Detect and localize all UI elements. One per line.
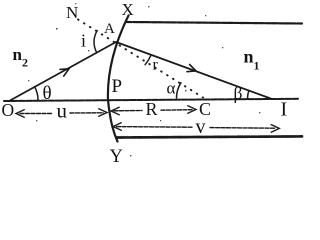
svg-text:A: A [104, 21, 115, 37]
svg-text:X: X [122, 0, 134, 19]
svg-text:R: R [146, 99, 158, 119]
svg-text:r: r [153, 57, 159, 74]
svg-text:α: α [167, 79, 176, 98]
svg-text:O: O [2, 100, 15, 120]
svg-text:Y: Y [110, 147, 123, 165]
svg-text:β: β [234, 83, 243, 103]
svg-text:I: I [281, 99, 288, 121]
svg-text:θ: θ [43, 83, 52, 104]
svg-text:v: v [196, 116, 206, 138]
svg-text:u: u [57, 99, 68, 123]
svg-text:N: N [66, 3, 78, 22]
svg-text:P: P [112, 76, 123, 97]
svg-text:i: i [81, 31, 86, 51]
